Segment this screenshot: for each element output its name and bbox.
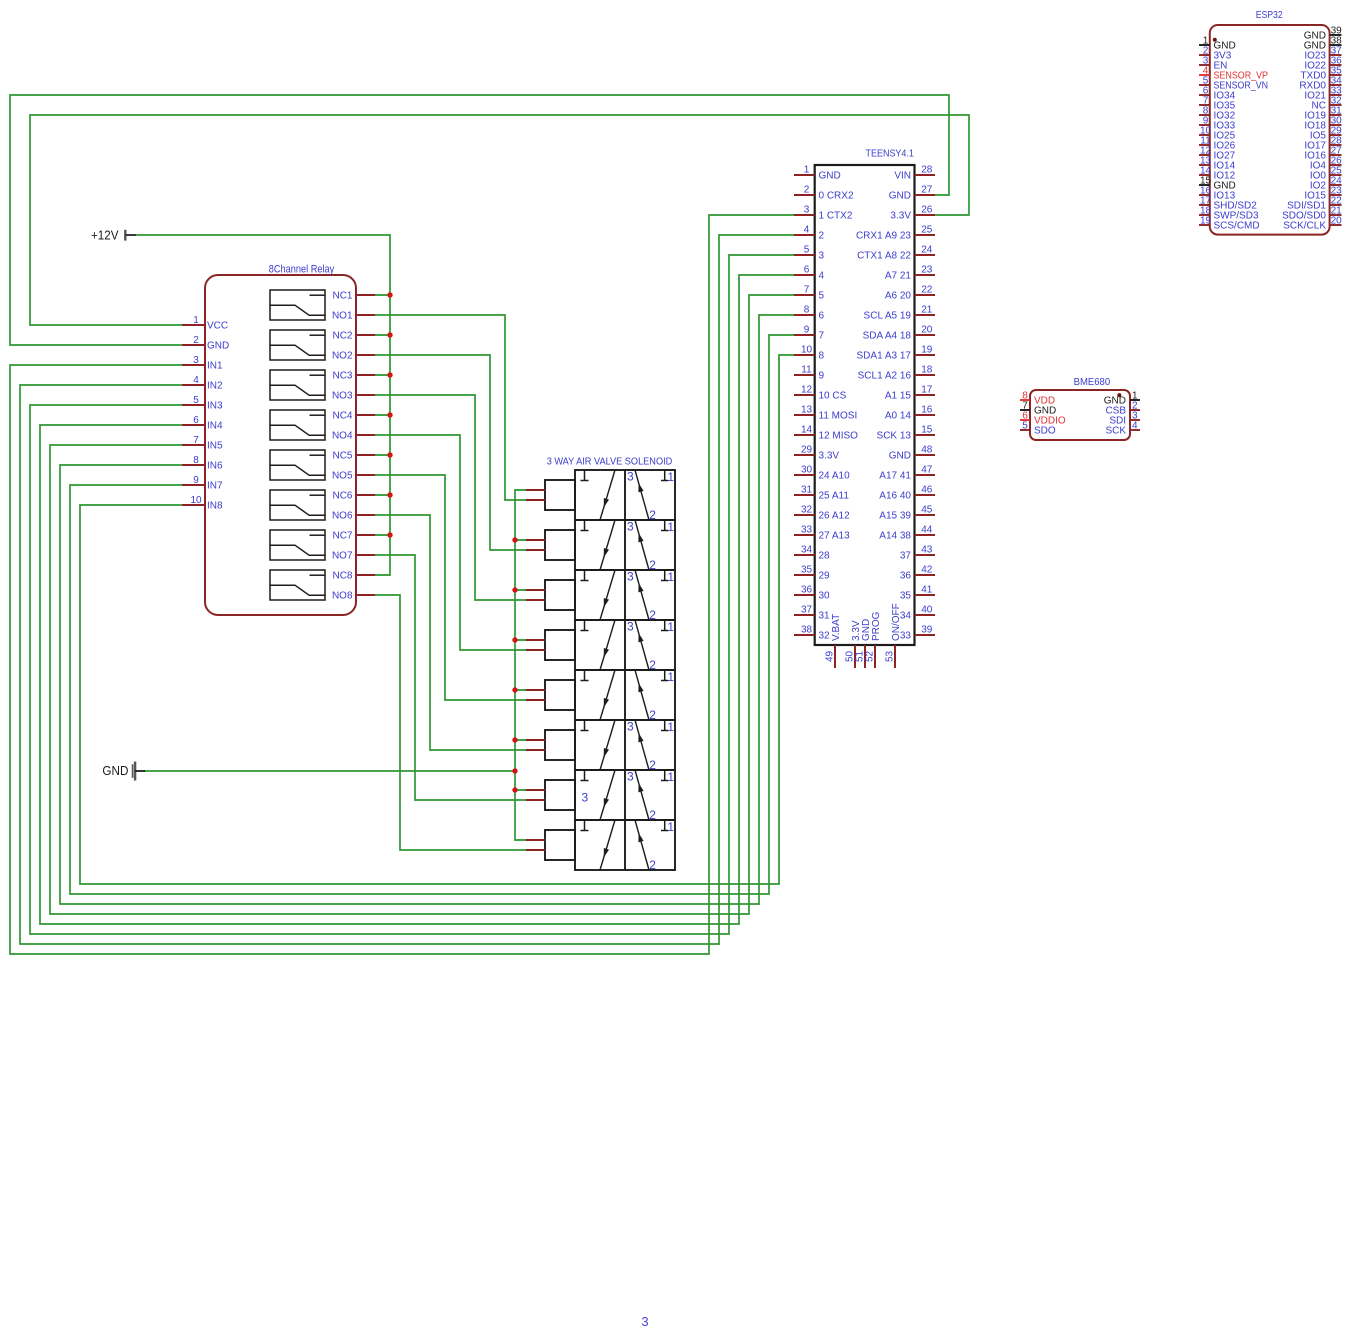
wire net NO2: relay NO2 to valve V2 coil xyxy=(375,355,526,550)
wire net 3V3: teensy pin 26 to relay pin 1 VCC xyxy=(30,115,969,325)
svg-text:BME680: BME680 xyxy=(1074,376,1111,388)
svg-text:2: 2 xyxy=(804,185,810,196)
teensy right pin stubs (pins 28-15, 48-39) xyxy=(915,175,936,635)
svg-text:27: 27 xyxy=(921,185,933,196)
relay contact switch SW5 xyxy=(270,450,325,480)
relay right pins NC1-NC8 NO1-NO8 stubs xyxy=(356,295,375,595)
svg-text:VIN: VIN xyxy=(894,171,911,182)
wire net IN6: teensy pin 8 to relay IN6 xyxy=(60,315,794,904)
svg-text:NO5: NO5 xyxy=(332,471,353,482)
sensor U4 BME680 body xyxy=(1030,376,1130,440)
teensy bottom pin stubs (pins 49-53) xyxy=(835,645,895,668)
svg-text:31: 31 xyxy=(819,611,831,622)
valve V8 solenoid coil xyxy=(545,830,575,860)
svg-text:29: 29 xyxy=(801,445,813,456)
valve V2 solenoid coil xyxy=(545,530,575,560)
svg-text:NO2: NO2 xyxy=(332,351,353,362)
svg-text:NO7: NO7 xyxy=(332,551,353,562)
svg-text:VCC: VCC xyxy=(207,321,228,332)
svg-text:17: 17 xyxy=(921,385,933,396)
svg-text:TEENSY4.1: TEENSY4.1 xyxy=(866,148,915,160)
wire net GND: coil upper pin connections xyxy=(515,490,526,840)
svg-text:22: 22 xyxy=(921,285,933,296)
svg-text:SDA1 A3 17: SDA1 A3 17 xyxy=(857,351,912,362)
svg-text:37: 37 xyxy=(801,605,813,616)
svg-text:20: 20 xyxy=(1331,215,1343,226)
svg-text:1: 1 xyxy=(193,315,199,326)
valve V1 solenoid coil xyxy=(545,480,575,510)
svg-text:SDA A4 18: SDA A4 18 xyxy=(863,331,912,342)
svg-text:GND: GND xyxy=(207,341,229,352)
svg-text:8Channel Relay: 8Channel Relay xyxy=(269,264,335,276)
junction dots +12V NC bus (NC1-NC7) xyxy=(387,292,392,537)
svg-text:NO6: NO6 xyxy=(332,511,353,522)
svg-text:36: 36 xyxy=(900,571,912,582)
svg-text:3: 3 xyxy=(641,1314,648,1329)
wire net IN2: teensy pin 4 to relay IN2 xyxy=(20,235,794,944)
svg-text:7: 7 xyxy=(819,331,825,342)
wire net IN1: teensy pin 3 to relay IN1 xyxy=(10,215,794,954)
svg-text:28: 28 xyxy=(819,551,831,562)
svg-text:11 MOSI: 11 MOSI xyxy=(819,411,858,422)
svg-text:GND: GND xyxy=(102,763,128,778)
svg-text:5: 5 xyxy=(1022,420,1028,431)
svg-text:1: 1 xyxy=(667,620,674,634)
svg-text:3: 3 xyxy=(804,205,810,216)
svg-text:1: 1 xyxy=(667,820,674,834)
wire net NO5: relay NO5 to valve V5 coil xyxy=(375,475,526,700)
valve V4 coil pin stubs xyxy=(526,640,545,650)
svg-text:A1 15: A1 15 xyxy=(885,391,912,402)
3-way air valve solenoid V6 body xyxy=(575,720,675,770)
svg-text:4: 4 xyxy=(1132,420,1138,431)
3-way air valve solenoid V2 body xyxy=(575,520,675,570)
relay contact switch SW1 xyxy=(270,290,325,320)
relay left pin numbers 1-10 xyxy=(190,315,202,506)
svg-text:NC6: NC6 xyxy=(332,491,352,502)
svg-text:24: 24 xyxy=(921,245,933,256)
svg-text:47: 47 xyxy=(921,465,933,476)
svg-text:32: 32 xyxy=(819,631,831,642)
svg-text:23: 23 xyxy=(921,265,933,276)
esp32 pin 1 marker dot xyxy=(1213,38,1217,42)
bme680 right pin numbers xyxy=(1132,390,1138,431)
svg-text:3: 3 xyxy=(582,791,589,805)
svg-text:7: 7 xyxy=(804,285,810,296)
svg-text:CTX1 A8 22: CTX1 A8 22 xyxy=(857,251,911,262)
esp32 left pin numbers 1-19 xyxy=(1200,35,1212,226)
svg-text:12: 12 xyxy=(801,385,813,396)
relay contact switch SW8 xyxy=(270,570,325,600)
svg-text:52: 52 xyxy=(865,650,876,662)
svg-text:4: 4 xyxy=(804,225,810,236)
teensy right pin numbers xyxy=(921,165,933,636)
relay contact switch SW7 xyxy=(270,530,325,560)
svg-text:2: 2 xyxy=(819,231,825,242)
relay left pins 1-10 (VCC GND IN1-IN8) stubs xyxy=(182,325,205,505)
valve V8 port number labels xyxy=(649,820,674,872)
power flag GND xyxy=(102,762,145,781)
svg-text:36: 36 xyxy=(801,585,813,596)
junction dots coil GND bus xyxy=(512,537,517,792)
valve V8 coil pin stubs xyxy=(526,840,545,850)
wire net NO1: relay NO1 to valve V1 coil xyxy=(375,315,526,500)
svg-text:29: 29 xyxy=(819,571,831,582)
wire net +12V: flag to NC bus xyxy=(136,235,390,575)
svg-text:IN7: IN7 xyxy=(207,481,223,492)
teensy bottom pin numbers 49-53 xyxy=(825,650,896,662)
svg-text:1: 1 xyxy=(667,670,674,684)
3-way air valve solenoid V7 body xyxy=(575,770,675,820)
svg-text:13: 13 xyxy=(801,405,813,416)
svg-text:10: 10 xyxy=(190,495,202,506)
bme680 right pin stubs (pins 1,2,3,4) xyxy=(1130,400,1140,430)
svg-text:5: 5 xyxy=(804,245,810,256)
svg-text:45: 45 xyxy=(921,505,933,516)
svg-text:A0 14: A0 14 xyxy=(885,411,912,422)
svg-text:SCK/CLK: SCK/CLK xyxy=(1283,221,1326,232)
svg-text:24 A10: 24 A10 xyxy=(819,471,851,482)
svg-text:IN2: IN2 xyxy=(207,381,223,392)
wire net IN3: teensy pin 5 to relay IN3 xyxy=(30,255,794,934)
valve V2 coil pin stubs xyxy=(526,540,545,550)
svg-text:19: 19 xyxy=(921,345,933,356)
svg-text:2: 2 xyxy=(193,335,199,346)
svg-text:IN5: IN5 xyxy=(207,441,223,452)
svg-text:30: 30 xyxy=(819,591,831,602)
relay contact switch SW6 xyxy=(270,490,325,520)
wire net NO8: relay NO8 to valve V8 coil xyxy=(375,595,526,850)
svg-text:44: 44 xyxy=(921,525,933,536)
svg-text:35: 35 xyxy=(801,565,813,576)
valve V7 port number labels xyxy=(582,770,675,823)
teensy left pin labels xyxy=(819,171,859,642)
wire net NO3: relay NO3 to valve V3 coil xyxy=(375,395,526,600)
valve V7 coil pin stubs xyxy=(526,790,545,800)
svg-text:GND: GND xyxy=(819,171,841,182)
svg-text:IN3: IN3 xyxy=(207,401,223,412)
svg-text:3: 3 xyxy=(627,520,634,534)
valve V6 port number labels xyxy=(627,720,674,773)
valve V7 solenoid coil xyxy=(545,780,575,810)
svg-text:26: 26 xyxy=(921,205,933,216)
svg-text:NC2: NC2 xyxy=(332,331,352,342)
wire net IN5: teensy pin 7 to relay IN5 xyxy=(50,295,794,914)
svg-text:GND: GND xyxy=(889,451,911,462)
svg-text:ON/OFF: ON/OFF xyxy=(891,603,902,641)
relay contact switch SW3 xyxy=(270,370,325,400)
svg-text:SCL1 A2 16: SCL1 A2 16 xyxy=(858,371,912,382)
valve V2 port number labels xyxy=(627,520,674,573)
svg-text:3: 3 xyxy=(627,620,634,634)
valve V3 port number labels xyxy=(627,570,674,623)
valve V4 port number labels xyxy=(627,620,674,673)
svg-text:A16 40: A16 40 xyxy=(879,491,911,502)
svg-text:3: 3 xyxy=(627,770,634,784)
svg-text:8: 8 xyxy=(819,351,825,362)
svg-text:SCS/CMD: SCS/CMD xyxy=(1214,221,1260,232)
svg-text:39: 39 xyxy=(921,625,933,636)
svg-text:34: 34 xyxy=(801,545,813,556)
svg-text:3: 3 xyxy=(819,251,825,262)
svg-text:SCK 13: SCK 13 xyxy=(877,431,912,442)
esp32 right pin stubs (pins 39-20) xyxy=(1330,35,1342,225)
svg-text:NC5: NC5 xyxy=(332,451,352,462)
svg-text:A17 41: A17 41 xyxy=(879,471,911,482)
svg-text:7: 7 xyxy=(193,435,199,446)
svg-text:33: 33 xyxy=(801,525,813,536)
svg-text:20: 20 xyxy=(921,325,933,336)
wire net NO7: relay NO7 to valve V7 coil xyxy=(375,555,526,800)
svg-text:38: 38 xyxy=(801,625,813,636)
valve V4 solenoid coil xyxy=(545,630,575,660)
svg-text:A7 21: A7 21 xyxy=(885,271,912,282)
svg-text:11: 11 xyxy=(801,365,812,376)
svg-text:3: 3 xyxy=(193,355,199,366)
3-way air valve solenoid V5 body xyxy=(575,670,675,720)
esp32 right pin numbers 39-20 xyxy=(1331,25,1343,226)
svg-text:31: 31 xyxy=(801,485,813,496)
svg-text:IN4: IN4 xyxy=(207,421,223,432)
esp32 left pin labels xyxy=(1214,41,1269,232)
svg-text:SCL A5 19: SCL A5 19 xyxy=(864,311,912,322)
svg-text:NC3: NC3 xyxy=(332,371,352,382)
valve V6 solenoid coil xyxy=(545,730,575,760)
svg-text:9: 9 xyxy=(819,371,825,382)
valve V6 coil pin stubs xyxy=(526,740,545,750)
svg-text:0 CRX2: 0 CRX2 xyxy=(819,191,854,202)
wire net +12V: NC pin stub connections xyxy=(375,295,390,575)
valve V1 port number labels xyxy=(627,470,674,523)
svg-text:1: 1 xyxy=(667,720,674,734)
svg-text:49: 49 xyxy=(825,650,836,662)
svg-text:25: 25 xyxy=(921,225,933,236)
svg-text:40: 40 xyxy=(921,605,933,616)
svg-text:NC4: NC4 xyxy=(332,411,352,422)
wire net GND: flag to coil bus xyxy=(145,770,515,772)
svg-text:46: 46 xyxy=(921,485,933,496)
wire net IN7: teensy pin 9 to relay IN7 xyxy=(70,335,794,894)
svg-text:3.3V: 3.3V xyxy=(819,451,840,462)
svg-text:GND: GND xyxy=(889,191,911,202)
3-way air valve solenoid V8 body xyxy=(575,820,675,870)
relay module U1 "8Channel Relay" body xyxy=(205,264,356,615)
svg-text:30: 30 xyxy=(801,465,813,476)
svg-text:V.BAT: V.BAT xyxy=(831,614,842,641)
svg-text:1: 1 xyxy=(667,770,674,784)
svg-text:SDO: SDO xyxy=(1034,426,1056,437)
relay contact switch SW4 xyxy=(270,410,325,440)
svg-text:1: 1 xyxy=(667,520,674,534)
svg-text:6: 6 xyxy=(819,311,825,322)
valve V5 solenoid coil xyxy=(545,680,575,710)
svg-text:NC8: NC8 xyxy=(332,571,352,582)
svg-text:19: 19 xyxy=(1200,215,1212,226)
relay right pin labels NC1/NO1..NC8/NO8 xyxy=(332,291,353,602)
svg-text:1: 1 xyxy=(667,570,674,584)
esp32 left pin stubs (pins 1-19) xyxy=(1199,45,1210,225)
svg-text:CRX1 A9 23: CRX1 A9 23 xyxy=(856,231,911,242)
svg-text:4: 4 xyxy=(819,271,825,282)
svg-text:9: 9 xyxy=(193,475,199,486)
svg-text:SCK: SCK xyxy=(1105,426,1126,437)
wire net GND: teensy pin 27 to relay pin 2 xyxy=(10,95,949,345)
svg-text:NO4: NO4 xyxy=(332,431,353,442)
wire net GND: valve coil bus vertical xyxy=(514,490,516,840)
svg-text:42: 42 xyxy=(921,565,933,576)
relay left pin labels VCC GND IN1-IN8 xyxy=(207,321,229,512)
svg-text:25 A11: 25 A11 xyxy=(819,491,850,502)
svg-text:3.3V: 3.3V xyxy=(890,211,911,222)
svg-text:NO1: NO1 xyxy=(332,311,353,322)
svg-text:10 CS: 10 CS xyxy=(819,391,847,402)
svg-text:IN1: IN1 xyxy=(207,361,223,372)
svg-text:8: 8 xyxy=(193,455,199,466)
svg-text:32: 32 xyxy=(801,505,813,516)
svg-text:NO8: NO8 xyxy=(332,591,353,602)
teensy right pin labels xyxy=(856,171,911,642)
svg-text:3: 3 xyxy=(627,470,634,484)
bme680 right pin labels xyxy=(1104,396,1127,437)
wire net IN4: teensy pin 6 to relay IN4 xyxy=(40,275,794,924)
svg-text:NC1: NC1 xyxy=(332,291,352,302)
teensy left pin stubs (pins 1-14, 29-38) xyxy=(794,175,815,635)
svg-text:3 WAY AIR VALVE SOLENOID: 3 WAY AIR VALVE SOLENOID xyxy=(547,455,673,467)
svg-text:NC7: NC7 xyxy=(332,531,352,542)
svg-text:5: 5 xyxy=(819,291,825,302)
svg-text:9: 9 xyxy=(804,325,810,336)
svg-text:48: 48 xyxy=(921,445,933,456)
svg-text:26 A12: 26 A12 xyxy=(819,511,851,522)
svg-text:A14 38: A14 38 xyxy=(879,531,911,542)
valve V3 coil pin stubs xyxy=(526,590,545,600)
svg-text:12 MISO: 12 MISO xyxy=(819,431,859,442)
svg-text:14: 14 xyxy=(801,425,813,436)
svg-text:4: 4 xyxy=(193,375,199,386)
3-way air valve solenoid V4 body xyxy=(575,620,675,670)
teensy left pin numbers xyxy=(801,165,813,636)
svg-text:2: 2 xyxy=(649,858,656,872)
microcontroller U2 TEENSY4.1 body xyxy=(815,148,915,645)
valve V1 coil pin stubs xyxy=(526,490,545,500)
svg-text:27 A13: 27 A13 xyxy=(819,531,851,542)
svg-text:37: 37 xyxy=(900,551,912,562)
wifi module U3 ESP32 body xyxy=(1210,9,1330,235)
svg-text:+12V: +12V xyxy=(91,228,119,243)
bme680 left pin numbers xyxy=(1022,390,1028,431)
svg-text:A6 20: A6 20 xyxy=(885,291,912,302)
svg-text:15: 15 xyxy=(921,425,933,436)
svg-text:21: 21 xyxy=(921,305,933,316)
valve V5 port number labels xyxy=(649,670,674,722)
svg-text:1 CTX2: 1 CTX2 xyxy=(819,211,853,222)
wire net NO6: relay NO6 to valve V6 coil xyxy=(375,515,526,750)
valve V3 solenoid coil xyxy=(545,580,575,610)
bme680 left pin labels xyxy=(1034,396,1066,437)
svg-text:41: 41 xyxy=(921,585,933,596)
svg-text:28: 28 xyxy=(921,165,933,176)
bme680 left pin stubs (pins 8,7,6,5) xyxy=(1020,400,1030,430)
bme680 pin 1 marker dot xyxy=(1117,393,1121,397)
svg-text:NO3: NO3 xyxy=(332,391,353,402)
svg-text:53: 53 xyxy=(885,650,896,662)
svg-text:A15 39: A15 39 xyxy=(879,511,911,522)
svg-text:10: 10 xyxy=(801,345,813,356)
svg-text:ESP32: ESP32 xyxy=(1256,9,1283,21)
wire net NO4: relay NO4 to valve V4 coil xyxy=(375,435,526,650)
relay contact switch SW2 xyxy=(270,330,325,360)
valve V5 coil pin stubs xyxy=(526,690,545,700)
svg-text:3: 3 xyxy=(627,720,634,734)
svg-text:IN6: IN6 xyxy=(207,461,223,472)
3-way air valve solenoid V3 body xyxy=(575,570,675,620)
esp32 right pin labels xyxy=(1282,31,1326,232)
svg-text:18: 18 xyxy=(921,365,933,376)
teensy bottom pin labels V.BAT 3.3V GND PROG ON/OFF xyxy=(831,603,902,641)
svg-text:16: 16 xyxy=(921,405,933,416)
svg-text:35: 35 xyxy=(900,591,912,602)
svg-text:3: 3 xyxy=(627,570,634,584)
svg-text:1: 1 xyxy=(667,470,674,484)
svg-text:6: 6 xyxy=(804,265,810,276)
wire net IN8: teensy pin 10 to relay IN8 xyxy=(80,355,794,884)
svg-text:1: 1 xyxy=(804,165,810,176)
svg-text:6: 6 xyxy=(193,415,199,426)
svg-text:5: 5 xyxy=(193,395,199,406)
power flag +12V xyxy=(91,228,136,243)
svg-text:8: 8 xyxy=(804,305,810,316)
3-way air valve solenoid V1 body xyxy=(575,470,675,520)
svg-text:IN8: IN8 xyxy=(207,501,223,512)
svg-text:43: 43 xyxy=(921,545,933,556)
svg-text:PROG: PROG xyxy=(871,611,882,641)
